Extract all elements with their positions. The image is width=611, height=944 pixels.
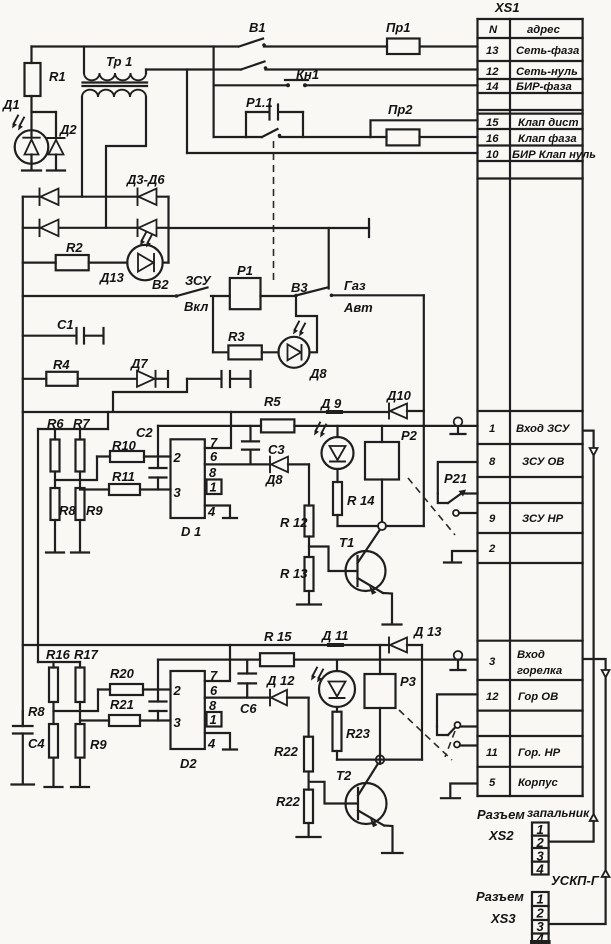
capacitor C2 (136, 425, 167, 490)
svg-text:D 1: D 1 (181, 524, 201, 539)
svg-text:4: 4 (536, 862, 545, 877)
svg-text:C2: C2 (136, 425, 153, 440)
rail wire y645 (23, 644, 389, 646)
wire Gaz to right vertical (332, 294, 424, 296)
wire B3 common up (328, 228, 330, 289)
dashed link P3 to contacts (399, 710, 455, 760)
contact P21 lower (453, 510, 476, 516)
resistor R3 (213, 329, 279, 359)
button Kn1 stem (213, 47, 215, 138)
switch B3 (291, 278, 373, 315)
svg-text:Д8: Д8 (265, 472, 283, 487)
svg-text:3: 3 (489, 656, 496, 668)
resistor R7 (73, 416, 90, 488)
row 12 Сеть-нуль (478, 66, 583, 79)
connector XS3 (530, 892, 551, 944)
svg-text:Клап дист: Клап дист (518, 117, 579, 129)
ground under R8 lower (45, 786, 63, 788)
svg-text:R2: R2 (66, 240, 83, 255)
contact blade lower section upper (448, 722, 476, 735)
svg-text:Р2: Р2 (401, 428, 418, 443)
wire to R22 (308, 698, 310, 737)
resistor R5 (261, 394, 294, 432)
svg-text:Д2: Д2 (59, 122, 77, 137)
svg-text:Пр1: Пр1 (386, 20, 411, 35)
bridge row 2 wire (23, 227, 169, 229)
emitter ground T2 (382, 826, 403, 854)
empty row line lower (478, 735, 583, 737)
svg-text:Клап фаза: Клап фаза (518, 133, 577, 145)
svg-text:ЗСУ: ЗСУ (185, 273, 212, 288)
switch contact of P1.1 (246, 129, 371, 137)
terminal test point row1 (451, 417, 466, 434)
contact blade P21 upper (448, 490, 478, 504)
svg-text:Д 9: Д 9 (320, 396, 342, 411)
wire R3 branch down (212, 296, 214, 352)
node junction lower (337, 755, 422, 763)
svg-text:Пр2: Пр2 (388, 102, 413, 117)
transformer Tr1 core (83, 83, 148, 87)
svg-text:R5: R5 (264, 394, 281, 409)
svg-text:Т2: Т2 (336, 768, 352, 783)
resistor R22 lower (276, 790, 313, 837)
bridge diode D5 (40, 220, 59, 237)
capacitor C6 (239, 660, 258, 716)
svg-text:15: 15 (486, 117, 499, 129)
row 12 Гор ОВ (478, 691, 583, 711)
ground under R13 (297, 603, 321, 605)
relay P3 (365, 645, 417, 756)
diode D2 (32, 112, 78, 170)
svg-text:4: 4 (207, 504, 216, 519)
svg-text:R20: R20 (110, 666, 135, 681)
svg-text:7: 7 (210, 435, 218, 450)
svg-text:Д3-Д6: Д3-Д6 (126, 172, 165, 187)
wire base T2 (309, 782, 358, 804)
svg-text:3: 3 (174, 715, 182, 730)
ground under D1 (22, 161, 41, 171)
svg-text:Разъем: Разъем (477, 807, 525, 822)
row 13 Сеть-фаза (478, 45, 583, 61)
svg-text:С3: С3 (268, 442, 285, 457)
label Разъем XS3 (476, 889, 524, 926)
svg-text:1: 1 (210, 712, 217, 727)
wire valve branch to row 15 (371, 120, 478, 137)
left bus vertical (22, 197, 24, 726)
resistor R10 (97, 438, 171, 462)
ground under R9 lower (71, 786, 89, 788)
pin 6 of D1 (205, 449, 270, 464)
svg-text:13: 13 (486, 45, 499, 57)
upper block bottom line (478, 177, 583, 179)
resistor R23 (333, 707, 371, 760)
pin 4 of D2 (205, 733, 237, 751)
svg-text:XS1: XS1 (494, 0, 520, 15)
resistor R9 lower (76, 724, 108, 787)
svg-text:В1: В1 (249, 20, 266, 35)
wire row1 to zapalnik (549, 431, 598, 842)
row 14 БИР-фаза (478, 81, 583, 93)
resistor R8 lower (28, 704, 58, 787)
resistor R21 (80, 697, 171, 726)
svg-text:R22: R22 (276, 794, 301, 809)
row 9 ЗСУ НР (478, 513, 583, 533)
wire D8 wrap to B3 node (296, 297, 317, 352)
svg-text:Д8: Д8 (309, 366, 327, 381)
svg-text:2: 2 (488, 543, 496, 555)
IC D2 (171, 671, 205, 771)
svg-text:Д 11: Д 11 (321, 628, 349, 643)
row 16 Клап фаза (478, 133, 583, 146)
IC D1 (171, 439, 205, 539)
svg-text:Р21: Р21 (444, 471, 467, 486)
connector XS1 frame (478, 19, 583, 796)
svg-text:R6: R6 (47, 416, 64, 431)
ground under R22 (297, 836, 321, 838)
svg-text:Вход ЗСУ: Вход ЗСУ (516, 423, 571, 435)
wire BIR null (187, 70, 478, 154)
transistor T1 (339, 528, 386, 595)
resistor R1 (25, 47, 66, 131)
svg-text:12: 12 (486, 66, 499, 78)
svg-text:6: 6 (210, 683, 218, 698)
svg-text:Корпус: Корпус (518, 777, 558, 789)
wire input ZSU line y426 (158, 425, 478, 427)
bridge right edge vertical (167, 197, 169, 263)
wire LED D13 to right edge (163, 262, 169, 264)
wire row2 extension to T-bar (169, 219, 370, 237)
svg-text:Газ: Газ (344, 278, 366, 293)
svg-text:Д7: Д7 (130, 356, 148, 371)
transistor T2 (336, 762, 387, 827)
resistors R6 R7 top link (38, 412, 108, 662)
pin 7 of D1 (205, 412, 231, 450)
wire burner line y660 (158, 658, 478, 660)
svg-text:10: 10 (486, 149, 499, 161)
LED D13 indicator (99, 233, 163, 286)
resistor R4 (23, 357, 137, 386)
ground at row 5 (441, 784, 478, 799)
svg-text:С6: С6 (240, 701, 257, 716)
svg-text:В3: В3 (291, 280, 308, 295)
svg-text:Разъем: Разъем (476, 889, 524, 904)
diode D11 mark (321, 628, 349, 647)
LED D1 (2, 97, 48, 164)
resistors R16 R17 top link (38, 661, 80, 663)
resistor R12 (280, 506, 314, 558)
relay P2 (365, 426, 418, 522)
contact box P21 (438, 462, 478, 503)
pin 7 of D2 (205, 645, 230, 683)
resistor R9 (76, 488, 104, 552)
svg-text:R1: R1 (49, 69, 66, 84)
label Разъем XS2 (477, 807, 525, 843)
diode D10 (386, 388, 424, 419)
svg-text:1: 1 (537, 892, 544, 907)
svg-text:Р1: Р1 (237, 263, 253, 278)
svg-text:R23: R23 (346, 726, 371, 741)
svg-text:В2: В2 (152, 277, 169, 292)
wire mains phase top (32, 45, 478, 47)
svg-text:ЗСУ НР: ЗСУ НР (522, 513, 564, 525)
svg-text:R21: R21 (110, 697, 134, 712)
svg-text:16: 16 (486, 133, 499, 145)
svg-text:8: 8 (209, 698, 217, 713)
relay contact P1.1 (246, 95, 303, 137)
contact box P3 contacts (437, 694, 478, 735)
capacitor C5 (150, 660, 167, 721)
svg-text:XS3: XS3 (490, 911, 516, 926)
LED D11 indicator (311, 660, 355, 707)
LED D8 indicator (279, 322, 328, 382)
switch B2 (152, 273, 230, 314)
pin 6 of D2 (205, 683, 270, 698)
bridge diode D6 (138, 220, 157, 237)
svg-text:8: 8 (209, 465, 217, 480)
diode D13 lower (389, 624, 442, 653)
capacitor after D7 (187, 371, 251, 387)
svg-text:C1: C1 (57, 317, 74, 332)
connector XS1 header (478, 24, 583, 38)
svg-text:Вкл: Вкл (184, 299, 208, 314)
svg-text:ЗСУ ОВ: ЗСУ ОВ (522, 456, 564, 468)
wire to R12 (308, 464, 310, 505)
wire under D7 (113, 379, 187, 412)
resistor R2 (23, 240, 128, 270)
svg-text:Д10: Д10 (386, 388, 412, 403)
resistor R16 (46, 647, 71, 724)
button Kn1 (214, 67, 478, 87)
emitter ground T1 (383, 593, 402, 625)
dashed link P1.1 to P1 (273, 141, 275, 283)
capacitor C1 (23, 317, 104, 344)
wire base T1 (309, 547, 357, 572)
diode D7 (130, 356, 168, 387)
relay P1 (230, 263, 261, 309)
contact lower section lower (454, 742, 476, 748)
resistor R13 (280, 557, 314, 604)
diode D8 blocking (265, 457, 309, 487)
svg-text:запальник: запальник (527, 806, 590, 820)
bridge row 1 wire (23, 196, 169, 198)
wire divider tap to R10 (55, 457, 97, 481)
wire secondary right to bridge (106, 97, 146, 228)
resistor R20 (98, 666, 171, 695)
svg-text:УСКП-Г: УСКП-Г (551, 873, 600, 888)
row 11 Гор. НР (478, 747, 583, 767)
terminal test point row3 (451, 651, 466, 670)
diode D12 (266, 673, 309, 705)
svg-text:БИР-фаза: БИР-фаза (516, 81, 572, 93)
svg-text:1: 1 (489, 423, 495, 435)
capacitor C3 (242, 426, 285, 465)
svg-text:7: 7 (210, 668, 218, 683)
svg-text:R 13: R 13 (280, 566, 308, 581)
transformer Tr1 secondary winding (82, 90, 146, 97)
svg-text:14: 14 (486, 81, 499, 93)
node junction (338, 522, 424, 530)
svg-text:Вход: Вход (517, 649, 545, 661)
pin 4 of D1 (205, 504, 237, 519)
svg-text:R9: R9 (86, 503, 103, 518)
svg-text:3: 3 (174, 485, 182, 500)
svg-text:R 15: R 15 (264, 629, 292, 644)
fuse Пр2 (371, 102, 478, 145)
wire ZSU row (23, 295, 175, 297)
svg-text:R8: R8 (28, 704, 45, 719)
svg-text:R8: R8 (59, 503, 76, 518)
dashed link P2 to contacts (408, 478, 455, 535)
svg-text:9: 9 (489, 513, 496, 525)
bridge diode D4 (138, 189, 157, 206)
svg-text:БИР Клап нуль: БИР Клап нуль (512, 149, 596, 161)
pin 1 box of D2 (207, 712, 222, 727)
svg-text:4: 4 (207, 736, 216, 751)
empty row line (478, 502, 583, 504)
ground under R8 (46, 551, 64, 553)
resistor R17 (74, 647, 99, 724)
LED D9 indicator (314, 423, 354, 470)
resistor R8 (51, 488, 77, 552)
resistor R6 (47, 416, 64, 488)
svg-text:N: N (489, 24, 498, 36)
svg-text:6: 6 (210, 449, 218, 464)
svg-text:R11: R11 (112, 469, 135, 484)
svg-text:2: 2 (173, 683, 182, 698)
row 15 Клап дист (478, 117, 583, 129)
wire secondary left to bridge (81, 97, 83, 197)
svg-text:R3: R3 (228, 329, 245, 344)
svg-text:8: 8 (489, 456, 496, 468)
svg-text:1: 1 (210, 480, 217, 495)
svg-text:2: 2 (173, 450, 182, 465)
svg-text:Авт: Авт (343, 300, 373, 315)
resistor R22 upper (274, 737, 313, 790)
svg-text:Д 12: Д 12 (266, 673, 295, 688)
resistor R11 (80, 469, 171, 495)
wire divider tap to R20 (54, 690, 99, 712)
svg-text:XS2: XS2 (488, 828, 514, 843)
svg-text:R4: R4 (53, 357, 70, 372)
svg-text:Тр 1: Тр 1 (106, 54, 132, 69)
switch B1 pole 1 (239, 39, 266, 47)
svg-text:R9: R9 (90, 737, 107, 752)
svg-text:R7: R7 (73, 416, 90, 431)
svg-text:5: 5 (489, 777, 496, 789)
svg-text:Гор. НР: Гор. НР (518, 747, 561, 759)
svg-text:R10: R10 (112, 438, 137, 453)
vertical wire x424 (423, 295, 425, 526)
switch B1 pole 2 (146, 62, 478, 70)
svg-text:Р3: Р3 (400, 674, 417, 689)
fuse Пр1 (386, 20, 420, 54)
row 1 Вход ЗСУ (478, 411, 583, 444)
svg-text:Т1: Т1 (339, 535, 354, 550)
svg-text:Д1: Д1 (2, 97, 20, 112)
row 3 Вход горелка (478, 641, 583, 680)
svg-text:R16: R16 (46, 647, 71, 662)
svg-text:R 14: R 14 (347, 493, 375, 508)
vertical wire x422 lower (421, 645, 423, 760)
svg-text:Сеть-нуль: Сеть-нуль (516, 66, 578, 78)
row 10 БИР Клап нуль (478, 149, 597, 161)
svg-text:Д 13: Д 13 (413, 624, 442, 639)
svg-text:горелка: горелка (517, 665, 562, 677)
empty row separator (478, 110, 583, 114)
bridge diode D3 (40, 189, 59, 206)
resistor R15 (260, 629, 294, 666)
ground at row 2 (444, 551, 478, 563)
svg-text:R17: R17 (74, 647, 99, 662)
svg-text:C4: C4 (28, 736, 45, 751)
pin 1 box of D1 (207, 480, 222, 495)
svg-text:Д13: Д13 (99, 270, 125, 285)
diode D9 mark (320, 396, 343, 414)
svg-text:адрес: адрес (527, 24, 561, 36)
wire P1 to B3 (261, 295, 296, 297)
row 2 (478, 543, 583, 563)
svg-text:R22: R22 (274, 744, 299, 759)
transformer Tr1 primary winding (84, 47, 146, 81)
row 8 ЗСУ ОВ (478, 456, 583, 477)
svg-text:12: 12 (486, 691, 499, 703)
capacitor C4 (12, 711, 46, 785)
svg-text:11: 11 (486, 747, 498, 759)
svg-text:Сеть-фаза: Сеть-фаза (516, 45, 579, 57)
svg-text:Гор ОВ: Гор ОВ (518, 691, 558, 703)
rail wire y412 (23, 411, 389, 413)
svg-text:R 12: R 12 (280, 515, 308, 530)
svg-text:D2: D2 (180, 756, 197, 771)
svg-text:Р1.1: Р1.1 (246, 95, 273, 110)
row 5 Корпус (489, 777, 558, 789)
wire row3 to USKP (549, 659, 610, 924)
connector XS2 (532, 822, 549, 877)
svg-text:Кн1: Кн1 (296, 67, 319, 82)
ground under R9 (71, 551, 89, 553)
ground under D2 (47, 169, 65, 171)
resistor R14 (333, 469, 375, 526)
